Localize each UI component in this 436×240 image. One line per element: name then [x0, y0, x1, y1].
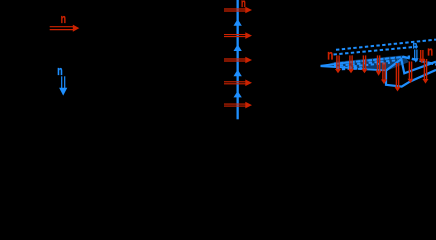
svg-text:n: n — [327, 47, 333, 62]
wire right blue double arrow down — [413, 50, 419, 63]
node right sheet dashed edges — [334, 40, 436, 70]
node right sheet band glow fill — [321, 55, 410, 71]
node right red down arrows row1 — [335, 55, 382, 76]
wire: left red double arrow right — [50, 25, 80, 32]
node hollow blue current arrow — [386, 59, 436, 87]
node center blue arrowheads up — [234, 19, 242, 97]
wire: left blue double arrow down — [59, 76, 67, 95]
svg-text:n: n — [61, 11, 66, 26]
node right red down arrows row2 — [381, 50, 429, 92]
svg-text:n: n — [427, 44, 433, 59]
wire: center red double arrows right x5 — [224, 7, 252, 109]
wire: center blue vertical line — [237, 0, 239, 119]
node right sheet left corner solid edges — [321, 62, 387, 70]
svg-text:n: n — [57, 63, 62, 78]
